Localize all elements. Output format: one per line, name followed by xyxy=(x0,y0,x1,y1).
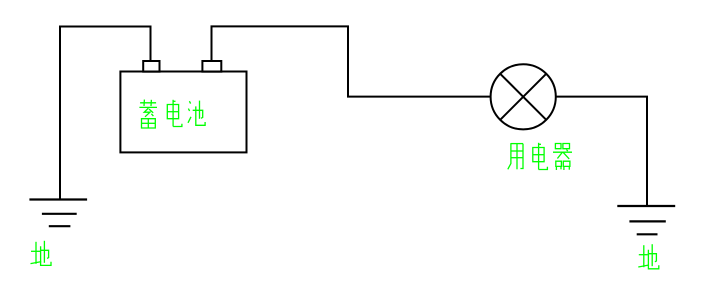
wire: lamp right side to right ground xyxy=(556,97,647,206)
ground (right) bar 1 xyxy=(617,205,675,207)
label 地 (left ground) xyxy=(31,241,52,266)
lamp / load circle xyxy=(491,64,556,129)
label 池 (battery label char 3) xyxy=(188,101,205,126)
battery terminal 1 (positive post) xyxy=(143,61,159,72)
label 蓄 (battery label char 1) xyxy=(139,100,157,128)
ground (right) bar 2 xyxy=(629,220,665,222)
wire: left ground up, across top, down to battery positive terminal xyxy=(60,27,151,200)
ground (right) bar 3 xyxy=(637,233,658,235)
wire: battery negative terminal up, across top, down and right to lamp xyxy=(212,26,491,96)
label 电 (battery label char 2) xyxy=(167,100,182,127)
label 地 (right ground) xyxy=(638,244,659,269)
ground (left) bar 3 xyxy=(49,225,71,227)
ground (left) bar 1 xyxy=(29,198,87,200)
lamp cross diagonal 2 xyxy=(500,74,546,120)
battery B1 body xyxy=(120,72,246,153)
battery terminal 2 (negative post) xyxy=(202,61,221,72)
label 用 (load label char 1) xyxy=(508,143,523,169)
ground (left) bar 2 xyxy=(42,213,77,215)
lamp cross diagonal 1 xyxy=(500,74,546,120)
label 电 (load label char 2) xyxy=(533,143,548,170)
label 器 (load label char 3) xyxy=(553,144,572,171)
